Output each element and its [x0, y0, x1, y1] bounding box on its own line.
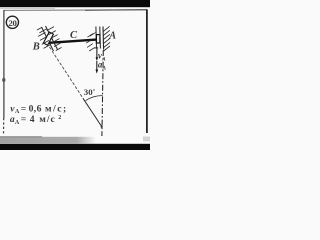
svg-text:=: = [21, 114, 26, 125]
svg-text:A: A [108, 30, 116, 41]
given values text line 1: vA = 0,6 m/s; [10, 103, 67, 115]
hatching left of B guide [37, 27, 51, 48]
svg-text:0,6: 0,6 [29, 103, 42, 114]
top black scan band [0, 0, 150, 7]
vertex junction dot [101, 126, 103, 128]
svg-text:м/с: м/с [39, 114, 55, 125]
svg-text:2: 2 [58, 115, 61, 121]
frame left line [3, 10, 5, 118]
svg-text:A: A [15, 109, 20, 115]
svg-text:м/с;: м/с; [45, 103, 68, 114]
bottom right gray patch [143, 137, 150, 142]
30 degree angle arc [86, 96, 103, 101]
rod BCA [49, 40, 97, 43]
bottom black scan band [0, 144, 150, 150]
frame top line [4, 9, 148, 12]
problem number badge (20) [6, 16, 18, 28]
svg-text:4: 4 [30, 114, 35, 125]
svg-text:A: A [101, 65, 106, 71]
acceleration arrow aA [96, 61, 98, 71]
hatching right of B guide [47, 27, 62, 51]
slider block B [43, 32, 53, 45]
guide bottom cap [94, 47, 98, 49]
slider channel at B: right rail [46, 26, 58, 50]
wall line at A [102, 27, 105, 50]
dash-dot centerline below A [102, 50, 103, 136]
svg-text:C: C [70, 30, 78, 41]
frame right line [146, 10, 148, 134]
svg-text:B: B [32, 42, 40, 53]
slider channel at B: left rail [42, 27, 54, 51]
given values text line 2: aA = 4 m/s^2 [10, 114, 61, 126]
wall hatching at A [103, 26, 110, 51]
velocity arrow vA [96, 49, 98, 59]
svg-text:20: 20 [8, 18, 17, 28]
inclined guide line to vertex (30 deg from vertical), upper faded part [50, 47, 84, 98]
hatching left of A guide [86, 33, 95, 51]
inclined guide line lower part [83, 98, 102, 127]
slider block A [96, 35, 100, 43]
vertical guide at A: right rail [99, 27, 102, 49]
faint gray line under band [0, 7, 55, 10]
svg-text:=: = [21, 103, 26, 114]
svg-text:A: A [15, 120, 20, 126]
vertical guide at A: left rail [95, 27, 98, 49]
